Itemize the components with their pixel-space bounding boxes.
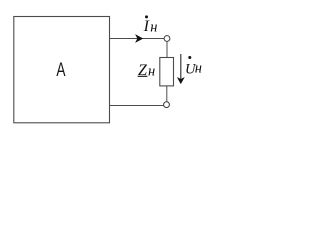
svg-text:A: A <box>56 59 65 81</box>
svg-text:н: н <box>148 64 155 80</box>
svg-text:н: н <box>150 19 157 35</box>
svg-text:I: I <box>143 18 150 35</box>
svg-text:н: н <box>195 61 202 77</box>
